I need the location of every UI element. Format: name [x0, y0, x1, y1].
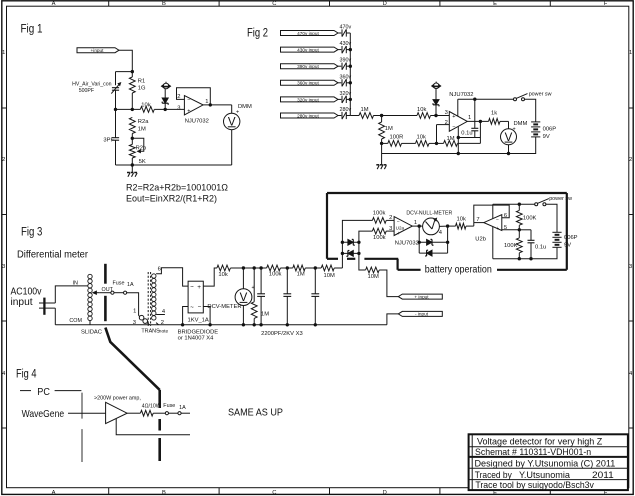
wire plug top to SLIDAC IN	[55, 286, 87, 303]
resistor 1M fig2 divider	[379, 116, 385, 144]
tag 360v input	[281, 80, 339, 85]
label NJU7032 fig2	[449, 92, 473, 98]
svg-text:390v input: 390v input	[297, 64, 319, 69]
resistor 10M fig3 second	[366, 267, 380, 273]
transformer core	[148, 272, 150, 326]
svg-text:1G: 1G	[138, 86, 146, 92]
label 3PF	[103, 138, 114, 144]
V+ riser U2b	[492, 204, 494, 218]
resistor 10k fig2 lower	[416, 141, 430, 147]
svg-text:+: +	[397, 231, 400, 237]
V- riser fig2	[457, 127, 460, 156]
label DMM fig1	[236, 104, 252, 116]
svg-text:NJU7032: NJU7032	[185, 118, 209, 124]
svg-text:1: 1	[629, 50, 632, 56]
label OUT	[102, 287, 114, 293]
label DMM fig2	[513, 121, 528, 132]
label pin3 U2a	[389, 226, 392, 232]
svg-text:+ input: + input	[414, 294, 429, 299]
label 10k fig1	[141, 103, 150, 109]
label or 1N4007 X4	[178, 335, 215, 341]
label pin2 fig2	[445, 120, 448, 126]
battery 006P box	[552, 232, 561, 247]
svg-text:+: +	[187, 109, 190, 115]
svg-text:−: −	[187, 98, 190, 104]
label DCV-METER	[207, 285, 254, 310]
wire SLIDAC COM to rail	[89, 321, 91, 325]
wire pin2 to bridge	[156, 307, 188, 327]
label U2b	[475, 237, 486, 243]
svg-text:100R: 100R	[390, 135, 404, 141]
svg-text:−: −	[452, 124, 455, 130]
svg-text:2: 2	[389, 215, 392, 221]
label 100k fig3	[269, 272, 282, 278]
svg-text:10k: 10k	[457, 216, 466, 222]
DCV-METER wire top	[242, 268, 244, 289]
svg-text:R2=R2a+R2b=1001001Ω: R2=R2a+R2b=1001001Ω	[126, 183, 228, 193]
label pin1 fig1	[205, 99, 208, 105]
Fig 3 heading	[21, 227, 42, 239]
svg-text:10M: 10M	[324, 273, 335, 279]
svg-text:0.1u: 0.1u	[461, 130, 472, 136]
svg-text:1A: 1A	[127, 282, 134, 288]
svg-text:280v: 280v	[340, 107, 352, 113]
wire tag to neon 360v	[338, 82, 341, 84]
svg-text:R2a: R2a	[138, 119, 149, 125]
label 5K	[139, 159, 146, 165]
label 1M fig2 series	[361, 107, 369, 113]
svg-text:−: −	[496, 217, 499, 223]
label pin1 trans	[133, 309, 136, 315]
label R2a 1M	[138, 119, 149, 132]
capacitor 3PF	[112, 138, 119, 141]
svg-text:power sw: power sw	[529, 92, 552, 98]
wire tag to neon 280v	[338, 115, 341, 117]
svg-text:2: 2	[445, 120, 448, 126]
svg-text:Eout=EinXR2/(R1+R2): Eout=EinXR2/(R1+R2)	[126, 194, 217, 204]
wire neon to bus 430v	[346, 49, 350, 51]
svg-text:280v input: 280v input	[297, 113, 319, 118]
wire fuse to TRANS pin1	[127, 293, 139, 316]
battery operation box outline	[327, 193, 567, 270]
svg-text:Fig 4: Fig 4	[16, 369, 37, 381]
label pin7 U2b	[476, 217, 479, 223]
wire amp to 40ohm	[127, 412, 140, 414]
svg-text:A: A	[52, 490, 56, 496]
wire 3PF branch	[115, 109, 117, 137]
svg-text:HV_Air_Vari_con: HV_Air_Vari_con	[72, 81, 112, 87]
svg-text:SAME AS UP: SAME AS UP	[228, 408, 283, 419]
label 1k	[491, 111, 497, 117]
svg-text:Y.Utsunomia: Y.Utsunomia	[519, 470, 571, 480]
node branch top	[116, 70, 135, 85]
label 0.1u box	[535, 244, 546, 250]
label 1M fig3 meter	[261, 312, 269, 318]
ground fig1	[127, 165, 137, 177]
resistor 10k fig2 top	[417, 113, 431, 119]
label battery operation	[425, 264, 492, 275]
title line 2	[475, 447, 591, 457]
svg-text:U2b: U2b	[475, 237, 486, 243]
resistor 10M fig3 first	[321, 265, 334, 271]
resistor 100k U2a lower	[372, 228, 386, 234]
svg-text:or 1N4007 X4: or 1N4007 X4	[178, 335, 215, 341]
svg-text:Designed by Y.Utsunomia (C) 2: Designed by Y.Utsunomia (C) 2011	[475, 459, 616, 469]
wire 100k to 1M fig3	[280, 266, 292, 269]
power switch fig2	[514, 94, 528, 101]
svg-text:430v input: 430v input	[297, 48, 319, 53]
svg-text:- input: - input	[415, 312, 429, 317]
svg-text:~: ~	[190, 285, 194, 291]
svg-text:390v: 390v	[340, 58, 352, 64]
svg-text:R1: R1	[138, 78, 145, 84]
label BRIDGEDIODE	[178, 330, 219, 336]
wire 10k to U2b pin7	[466, 223, 484, 227]
wire bridge plus to 10k	[203, 268, 217, 286]
label 10M first	[324, 273, 335, 279]
label IN	[73, 281, 78, 287]
neon lamp 430v	[342, 46, 346, 53]
wire neon to bus 320v	[346, 98, 350, 100]
power symbol fig2	[432, 82, 441, 89]
feedback riser fig2	[479, 121, 481, 143]
DCV-METER	[235, 289, 252, 306]
wire neon to bus 470v	[346, 32, 350, 34]
svg-text:COM: COM	[69, 318, 82, 324]
label R2b	[136, 145, 147, 151]
bus vertical fig2	[349, 33, 352, 116]
svg-text:1M: 1M	[297, 272, 305, 278]
svg-text:D: D	[383, 490, 387, 496]
capacitor HV_Air_Vari_con 500PF	[111, 83, 120, 94]
label pin6 trans	[158, 266, 161, 272]
power symbol fig1	[162, 82, 171, 89]
label 40ohm10W	[142, 404, 161, 410]
label 10M second	[368, 274, 379, 280]
svg-text:3: 3	[629, 264, 632, 270]
label pin5 U2b	[504, 225, 507, 231]
svg-text:Fig 1: Fig 1	[21, 24, 43, 36]
svg-text:2: 2	[161, 320, 164, 326]
label 390v	[340, 58, 352, 64]
svg-text:430v: 430v	[340, 41, 352, 47]
title line 4	[475, 470, 614, 480]
resistor 1M fig2 feedback	[437, 141, 481, 147]
svg-text:Trace tool by suigyodo/Bsch3v: Trace tool by suigyodo/Bsch3v	[475, 480, 594, 490]
svg-text:+input: +input	[91, 48, 105, 53]
op-amp U2b	[484, 215, 502, 233]
svg-text:9V: 9V	[543, 134, 550, 140]
op-amp U1 NJU7032	[184, 96, 203, 115]
top chain wire fig3	[230, 266, 266, 269]
wire switch to battery fig2	[525, 99, 536, 122]
svg-text:+: +	[236, 110, 239, 116]
svg-text:1k: 1k	[491, 111, 497, 117]
svg-text:500PF: 500PF	[79, 88, 94, 94]
svg-text:1: 1	[468, 115, 471, 121]
label SLIDAC	[81, 329, 102, 335]
svg-text:3PF: 3PF	[103, 138, 114, 144]
svg-text:3: 3	[2, 264, 5, 270]
svg-text:2: 2	[629, 157, 632, 163]
svg-text:Traced by: Traced by	[475, 470, 512, 480]
resistor 100R fig2	[382, 141, 402, 147]
wire 1M to node	[374, 114, 384, 117]
Differential meter label	[17, 249, 89, 260]
svg-text:Schemat # 110311-VDH001-n: Schemat # 110311-VDH001-n	[475, 447, 591, 457]
svg-text:1M: 1M	[361, 107, 369, 113]
resistor 100k fig3	[267, 265, 281, 271]
svg-text:NJU7032: NJU7032	[449, 92, 473, 98]
wire 1k to DMM fig2	[500, 121, 509, 128]
capacitor C2 2200PF	[283, 268, 291, 326]
neon lamp 360v	[342, 79, 346, 86]
label 320v	[340, 91, 352, 97]
wire bus to 1M	[350, 115, 359, 117]
label PC	[37, 386, 50, 398]
wire R1 to node	[131, 93, 133, 109]
wire 100R to 10k lower	[402, 142, 416, 144]
title block frame	[469, 434, 628, 490]
feedback wire U1	[177, 88, 211, 105]
svg-text:5K: 5K	[139, 159, 146, 165]
ground riser fig2	[381, 143, 383, 153]
svg-text:0.1u: 0.1u	[535, 244, 546, 250]
label 280v	[340, 107, 352, 113]
svg-text:A: A	[52, 1, 56, 7]
supply rail fig2	[458, 98, 514, 101]
Fig 4 heading	[16, 369, 37, 381]
resistor 100k U2a upper	[372, 218, 386, 224]
neon lamp 390v	[342, 63, 346, 70]
label 470v	[340, 25, 352, 31]
svg-text:Fig 3: Fig 3	[21, 227, 42, 239]
transformer primary winding	[139, 315, 150, 324]
svg-text:1: 1	[2, 50, 5, 56]
wire varicap to node row	[115, 90, 117, 109]
amp return wire	[116, 419, 190, 435]
clamp left rail	[341, 220, 373, 268]
label DCV-NULL-METER	[406, 211, 452, 217]
neon lamp 320v	[342, 96, 346, 103]
title line 3	[475, 459, 616, 469]
battery 006P fig2	[531, 122, 540, 137]
label 100k U2a upper	[373, 211, 386, 217]
wire 10k to op-amp pin3	[154, 108, 184, 111]
svg-text:320v: 320v	[340, 91, 352, 97]
label pin3 trans	[133, 320, 136, 326]
svg-text:Fuse: Fuse	[163, 403, 175, 409]
label 10k fig2 lower	[417, 135, 426, 141]
label 360v	[340, 74, 352, 80]
label pin2 trans	[161, 320, 164, 326]
label 10k null	[457, 216, 466, 222]
wire 1M to 10M fig3	[305, 266, 321, 269]
label 1M fig2 divider	[385, 126, 393, 132]
svg-text:R2b: R2b	[136, 145, 147, 151]
label 2200PF/2KV X3	[261, 331, 303, 337]
svg-text:006P: 006P	[543, 126, 557, 132]
clamp diode pair lower	[342, 251, 359, 257]
svg-text:B: B	[162, 1, 166, 7]
wire DMM to rail fig2	[507, 145, 510, 155]
svg-text:3: 3	[445, 110, 448, 116]
svg-text:100K: 100K	[523, 216, 537, 222]
label 006P 9V fig2	[543, 126, 557, 139]
svg-text:Fig 2: Fig 2	[247, 28, 268, 40]
wire 10k to pin3 fig2	[431, 114, 450, 117]
label R1 1G	[138, 78, 146, 91]
svg-text:6: 6	[158, 266, 161, 272]
svg-text:100k: 100k	[373, 211, 386, 217]
title line 1	[477, 437, 603, 447]
svg-text:D: D	[383, 1, 387, 7]
wire null meter out	[439, 224, 455, 227]
wire 10M2 to +input	[379, 270, 398, 297]
resistor R2a	[129, 117, 135, 133]
label pin4 null meter	[439, 230, 443, 236]
tag 280v input	[281, 113, 339, 118]
node lower fig2	[380, 142, 383, 145]
label 100R	[390, 135, 404, 141]
node row wire	[114, 108, 141, 111]
svg-text:10M: 10M	[368, 274, 379, 280]
svg-text:1: 1	[205, 99, 208, 105]
svg-text:Differential meter: Differential meter	[17, 249, 89, 260]
resistor R2b trimmer	[129, 138, 143, 158]
null meter bypass diode upper	[418, 226, 450, 245]
wire neon to bus 360v	[346, 82, 350, 84]
output node fig2	[467, 120, 488, 123]
fuse fig3	[111, 291, 127, 294]
label 1M fig2 feedback	[447, 136, 455, 142]
label 10k fig3	[218, 272, 227, 278]
svg-text:320v input: 320v input	[297, 97, 319, 102]
svg-text:DCV-METER: DCV-METER	[207, 304, 241, 310]
replacement thick line lower dashes	[158, 390, 161, 461]
label Fuse fig3	[113, 281, 134, 288]
label pin3 fig1	[177, 105, 180, 111]
label 1KV_1A	[188, 317, 209, 323]
svg-text:+: +	[513, 127, 516, 133]
label 100K lower	[504, 243, 518, 249]
svg-text:3: 3	[389, 226, 392, 232]
op-amp U2 NJU7032 fig2	[449, 112, 467, 132]
wire rail to -input	[387, 314, 398, 325]
label pin6 U2b	[504, 213, 507, 219]
svg-text:100k: 100k	[269, 272, 282, 278]
svg-text:+: +	[496, 226, 499, 232]
svg-text:+: +	[452, 114, 455, 120]
DMM meter fig2	[501, 129, 517, 145]
wire WaveGene to amp	[68, 412, 106, 414]
wire 40ohm to fuse fig4	[153, 412, 165, 414]
wire tag to neon 390v	[338, 65, 341, 67]
wire DMM to bottom rail	[116, 130, 232, 165]
DCV-METER wire bottom	[242, 306, 245, 327]
label 0.1u fig2	[461, 130, 472, 136]
equation Eout	[126, 194, 217, 204]
svg-text:470v input: 470v input	[297, 31, 319, 36]
svg-text:Voltage detector for very high: Voltage detector for very high Z	[477, 437, 603, 447]
svg-text:+: +	[197, 284, 201, 291]
label power sw fig2	[529, 92, 552, 98]
svg-text:360v input: 360v input	[297, 81, 319, 86]
label pin3 fig2	[445, 110, 448, 116]
resistor 1M fig3 series	[293, 265, 305, 271]
resistor R1	[129, 77, 135, 93]
null meter bypass diode lower	[419, 242, 447, 256]
wire tag to neon 430v	[338, 49, 341, 51]
border zone numbers 1-4	[2, 50, 633, 377]
svg-text:C: C	[272, 490, 276, 496]
tag -input fig3	[398, 311, 442, 316]
svg-text:10k: 10k	[417, 135, 426, 141]
capacitor 0.1u fig2	[471, 99, 478, 137]
resistor 100K U2b lower	[516, 230, 522, 261]
label 100K upper	[523, 216, 537, 222]
wire +input to R1 top	[119, 50, 132, 77]
svg-text:IN: IN	[73, 281, 78, 287]
bottom rail fig3	[55, 308, 387, 325]
svg-text:1: 1	[133, 309, 136, 315]
label WaveGene	[22, 408, 65, 420]
svg-text:3: 3	[177, 105, 180, 111]
wire battery to rail fig2	[382, 137, 536, 154]
resistor 1k fig2	[489, 119, 501, 125]
resistor 100K U2b upper	[516, 204, 522, 230]
tag 320v input	[281, 97, 339, 102]
wire 3PF to rail	[115, 140, 117, 165]
svg-text:C: C	[272, 1, 276, 7]
svg-text:1M: 1M	[447, 136, 455, 142]
wire node to 10k fig2	[382, 115, 417, 117]
wire 100k to pin2 U2a	[386, 219, 394, 221]
tag 430v input	[281, 47, 339, 52]
DMM meter fig1	[224, 113, 240, 129]
label pin1 fig2	[468, 115, 471, 121]
label pin2 fig1	[177, 94, 180, 100]
svg-text:1A: 1A	[179, 405, 186, 411]
svg-text:4Ω/10W: 4Ω/10W	[142, 404, 161, 410]
svg-text:2200PF/2KV X3: 2200PF/2KV X3	[261, 331, 303, 337]
replacement thick line upper	[104, 264, 107, 321]
tag 470v input	[281, 31, 339, 36]
wire R2a to R2b	[131, 134, 134, 145]
bridge rectifier BRIDGEDIODE	[188, 281, 203, 313]
capacitor C1 2200PF	[257, 268, 265, 326]
wire 10k lower to pin2 node	[429, 142, 438, 145]
U2b feedback	[474, 205, 509, 223]
svg-text:1M: 1M	[385, 126, 393, 132]
wire switch to battery box	[546, 204, 557, 232]
svg-text:100K: 100K	[504, 243, 518, 249]
label pin2 U2a	[389, 215, 392, 221]
zener diode D2 fig2	[433, 89, 439, 116]
resistor 40ohm 10W	[140, 410, 153, 416]
svg-text:WaveGene: WaveGene	[22, 408, 65, 420]
wire fuse fig4 out	[181, 412, 190, 414]
wire neon to bus 280v	[346, 115, 350, 117]
svg-text:Fuse: Fuse	[113, 281, 125, 287]
svg-text:battery operation: battery operation	[425, 264, 492, 275]
label 006P 9V box	[564, 235, 578, 249]
svg-text:−: −	[198, 304, 202, 311]
label power amp	[94, 396, 141, 402]
SLIDAC wiper arrow OUT	[93, 291, 100, 294]
equation R2	[126, 183, 228, 193]
tag 390v input	[281, 64, 339, 69]
